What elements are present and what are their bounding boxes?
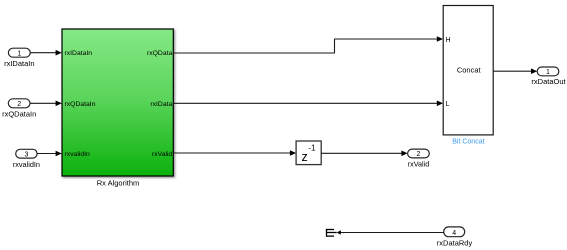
svg-text:rxQDataIn: rxQDataIn bbox=[65, 101, 96, 108]
output port 1 rxDataOut bbox=[531, 67, 566, 86]
input port 1 rxIDataIn bbox=[4, 48, 34, 68]
input port 3 rxvalidIn bbox=[13, 149, 40, 169]
svg-text:Concat: Concat bbox=[457, 66, 482, 75]
E terminator symbol bbox=[326, 229, 337, 237]
svg-text:rxIDataIn: rxIDataIn bbox=[65, 50, 93, 57]
input port 4 rxDataRdy bbox=[437, 227, 473, 248]
block Unit Delay z^-1 bbox=[296, 141, 321, 165]
block Rx Algorithm (green subsystem) bbox=[62, 29, 173, 187]
svg-text:Rx Algorithm: Rx Algorithm bbox=[97, 178, 140, 187]
svg-text:2: 2 bbox=[17, 101, 21, 108]
svg-text:rxIDataIn: rxIDataIn bbox=[4, 59, 34, 68]
svg-text:3: 3 bbox=[24, 151, 28, 158]
svg-text:rxDataRdy: rxDataRdy bbox=[437, 238, 473, 247]
svg-text:Bit Concat: Bit Concat bbox=[452, 139, 484, 146]
input port 2 rxQDataIn bbox=[2, 99, 36, 119]
svg-text:rxvalidIn: rxvalidIn bbox=[65, 151, 91, 158]
svg-text:2: 2 bbox=[417, 151, 421, 158]
svg-text:H: H bbox=[446, 37, 451, 44]
svg-text:rxDataOut: rxDataOut bbox=[531, 77, 566, 86]
output port 2 rxValid bbox=[408, 149, 430, 169]
wire rxQData to Concat H bbox=[173, 36, 443, 53]
wire Concat to output port rxDataOut bbox=[493, 68, 537, 74]
svg-text:1: 1 bbox=[17, 50, 21, 57]
svg-text:rxIData: rxIData bbox=[150, 101, 172, 108]
wire Unit Delay to output port rxValid bbox=[321, 151, 407, 157]
block Bit Concat bbox=[443, 6, 493, 146]
svg-text:L: L bbox=[446, 101, 450, 108]
svg-text:rxQDataIn: rxQDataIn bbox=[2, 110, 36, 119]
svg-text:rxQData: rxQData bbox=[147, 50, 173, 57]
svg-text:4: 4 bbox=[452, 230, 456, 237]
wire port2 to Rx Algorithm bbox=[30, 101, 62, 107]
wire port3 to Rx Algorithm bbox=[37, 151, 62, 157]
svg-text:rxvalidIn: rxvalidIn bbox=[13, 160, 40, 169]
svg-text:-1: -1 bbox=[308, 142, 316, 152]
svg-text:rxValid: rxValid bbox=[152, 151, 172, 158]
svg-text:1: 1 bbox=[546, 69, 550, 76]
wire rxIData to Concat L bbox=[173, 101, 443, 107]
wire rxDataRdy to E terminator (leftward) bbox=[337, 230, 444, 234]
wire port1 to Rx Algorithm bbox=[30, 50, 62, 56]
wire rxValid to Unit Delay bbox=[173, 150, 296, 156]
svg-text:z: z bbox=[302, 150, 308, 164]
svg-text:rxValid: rxValid bbox=[408, 160, 429, 169]
